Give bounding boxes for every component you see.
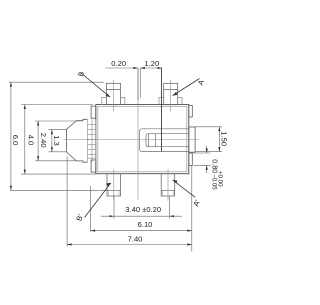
body outline	[96, 105, 189, 174]
dimension 4.0 left	[21, 105, 96, 175]
svg-text:1.50: 1.50	[219, 131, 228, 146]
lug left-bottom	[91, 160, 96, 172]
dimension 0.80 +0.00/-0.05 right	[194, 146, 211, 174]
svg-text:6.10: 6.10	[138, 220, 153, 229]
dimension 6.0 left	[9, 82, 108, 190]
dimension 1.3 left	[49, 130, 67, 152]
inner rounded pocket	[139, 129, 188, 152]
svg-text:A: A	[196, 79, 206, 87]
svg-text:4.0: 4.0	[27, 135, 36, 146]
lug right-bottom	[189, 153, 193, 166]
stem trapezoid	[66, 119, 87, 162]
svg-text:A′: A′	[191, 198, 202, 208]
section label A' with leader	[173, 180, 203, 208]
centerline vertical	[137, 68, 139, 200]
section label B' with leader	[74, 183, 111, 222]
inner contact box	[146, 134, 189, 147]
svg-text:6.0: 6.0	[11, 135, 20, 146]
svg-text:7.40: 7.40	[128, 234, 143, 243]
dimension 7.40 bottom	[67, 156, 192, 246]
svg-text:B: B	[76, 70, 86, 78]
centerline terminal top-right	[170, 80, 172, 112]
centerline terminal top-left	[112, 80, 114, 112]
dimension 6.10 bottom	[91, 166, 192, 252]
terminal top-left	[102, 83, 125, 104]
svg-text:2.40: 2.40	[39, 133, 48, 148]
centerline terminal bottom-right	[167, 169, 169, 201]
section label B with leader	[76, 70, 110, 97]
terminal bottom-right	[161, 174, 175, 196]
svg-text:1.20: 1.20	[144, 59, 159, 68]
svg-text:B′: B′	[74, 213, 85, 223]
terminal top-right	[159, 83, 182, 104]
right middle protrusion	[189, 127, 195, 152]
svg-text:−0.05: −0.05	[210, 174, 217, 190]
stem bellows ladder	[88, 119, 96, 162]
section label A with leader	[173, 79, 206, 96]
dimension 2.40 left	[35, 121, 83, 161]
dimension 1.50 right	[196, 127, 223, 152]
body inner wall	[98, 106, 187, 171]
dimension 3.40 ±0.20 bottom	[101, 196, 182, 219]
svg-text:3.40 ±0.20: 3.40 ±0.20	[125, 205, 161, 214]
lug left-top	[91, 106, 96, 118]
terminal bottom-left	[107, 174, 121, 196]
centerline horizontal	[64, 139, 200, 141]
svg-text:1.3: 1.3	[52, 135, 61, 146]
svg-text:0.20: 0.20	[111, 59, 126, 68]
dimension 1.20 top	[161, 68, 163, 151]
dimension 0.20 top	[105, 68, 162, 100]
lug right-top	[189, 106, 193, 118]
centerline terminal bottom-left	[113, 169, 115, 201]
